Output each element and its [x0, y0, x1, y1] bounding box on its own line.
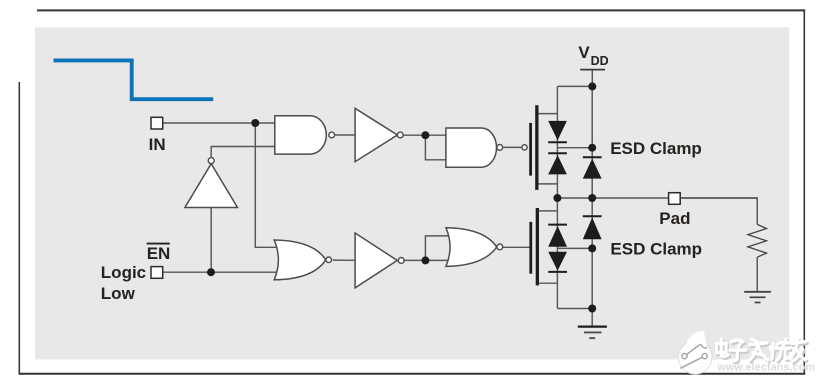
- nor gate U6: [274, 240, 326, 280]
- wire NMOS source/drain vertical: [556, 198, 558, 309]
- node pad rail left junction: [553, 194, 561, 202]
- svg-text:ESD Clamp: ESD Clamp: [610, 239, 702, 258]
- wire PMOS drain lead top: [539, 113, 558, 115]
- inverter U5: [355, 233, 397, 288]
- node ESD clamp top junction: [588, 144, 596, 152]
- nand gate U3: [446, 128, 497, 167]
- wire IN-node down to NOR1 top input: [255, 123, 278, 247]
- frame left border: [18, 82, 20, 375]
- transistor Q1 (PMOS) gate bubble: [522, 145, 527, 150]
- svg-text:www.elecfans.com: www.elecfans.com: [717, 361, 816, 373]
- watermark logo node ring 2: [702, 354, 707, 359]
- inverter U4 (EN buffer, pointing up): [185, 164, 238, 208]
- ground (under resistor): [744, 291, 771, 293]
- wire inverter U5 output to NOR2 bottom input: [404, 259, 450, 261]
- bubble U5 output: [398, 258, 404, 264]
- wire PMOS source/drain vertical: [556, 86, 558, 198]
- node IN junction: [251, 119, 259, 127]
- svg-text:Pad: Pad: [659, 209, 690, 228]
- node ground rail junction: [588, 305, 596, 313]
- diode D3 (ESD clamp to VDD): [583, 156, 602, 158]
- watermark logo trace 2: [680, 356, 704, 368]
- bubble U7 output: [497, 244, 503, 250]
- svg-text:ESD Clamp: ESD Clamp: [610, 139, 702, 158]
- watermark logo circle: [679, 341, 712, 374]
- diode D4 (body diode up): [548, 224, 567, 226]
- wire inverter U2 output to NAND2 top input: [403, 134, 446, 136]
- wire NAND2 output to PMOS gate: [503, 146, 522, 148]
- wire NMOS clamp vertical: [591, 198, 593, 326]
- resistor R1: [748, 224, 767, 257]
- frame top border: [37, 9, 805, 11]
- wire NAND1 output to inverter U2: [335, 134, 356, 136]
- wire feedback loop node to NOR2 top input: [425, 236, 450, 261]
- terminal square Pad: [669, 193, 681, 205]
- watermark chinese characters (stylised strokes): [716, 339, 807, 364]
- wire ground rail bottom: [557, 308, 592, 310]
- node EN junction: [207, 268, 215, 276]
- wire EN-inverter output to NAND1 bottom input: [211, 147, 275, 158]
- wire NMOS clamp middle node: [557, 247, 592, 249]
- watermark logo flame: [686, 331, 707, 349]
- wire NOR1 output to inverter U5: [333, 259, 356, 261]
- bubble U6 output: [326, 257, 332, 263]
- ground (main, under NMOS): [578, 326, 607, 328]
- svg-text:V: V: [578, 43, 590, 62]
- transistor Q1 gate bar: [529, 123, 532, 176]
- svg-text:Logic: Logic: [101, 263, 146, 282]
- watermark logo trace 1: [685, 345, 707, 357]
- node ESD clamp bottom junction: [588, 244, 596, 252]
- wire IN to NAND1 top input: [163, 122, 275, 124]
- wire VDD stem: [591, 70, 593, 87]
- wire VDD clamp vertical: [591, 86, 593, 198]
- wire VDD node to PMOS source branch: [557, 85, 592, 87]
- node VDD junction: [588, 82, 596, 90]
- wire feedback loop node to NAND2 bottom input: [425, 135, 446, 160]
- node pad rail right junction: [588, 194, 596, 202]
- svg-text:IN: IN: [149, 135, 166, 154]
- frame right border: [803, 9, 805, 374]
- diode D1 (body diode down): [548, 121, 567, 140]
- node feedback junction top: [421, 131, 429, 139]
- svg-text:DD: DD: [591, 54, 609, 68]
- diode D5 (body diode down): [548, 252, 567, 271]
- nor gate U7: [446, 228, 497, 267]
- transistor Q1 channel bar: [535, 105, 538, 190]
- diode D2 (body diode up): [548, 152, 567, 154]
- diode D6 (ESD clamp to pad): [583, 215, 602, 217]
- frame bottom border: [19, 373, 805, 375]
- wire PMOS drain lead bottom: [539, 183, 558, 185]
- wire pad rail: [557, 197, 757, 199]
- bubble U2 output: [397, 132, 403, 138]
- svg-text:EN: EN: [147, 244, 171, 263]
- wire EN-inverter input from Logic Low line: [210, 208, 212, 273]
- node feedback junction bottom: [421, 256, 429, 264]
- transistor Q2 channel bar: [536, 208, 539, 285]
- wire NMOS drain lead top: [539, 210, 557, 212]
- panel background: [35, 27, 789, 359]
- transistor Q2 (NMOS) gate bar: [529, 222, 532, 274]
- wire pad to resistor: [680, 198, 757, 224]
- wire NMOS drain lead bottom: [539, 282, 557, 284]
- wire Logic Low to NOR1 bottom input: [163, 271, 279, 273]
- terminal square Logic Low: [151, 267, 163, 279]
- svg-text:Low: Low: [101, 284, 136, 303]
- bubble U3 output: [497, 145, 503, 151]
- watermark logo node ring 1: [682, 354, 687, 359]
- bubble U1 output: [329, 132, 335, 138]
- terminal square IN: [151, 117, 163, 129]
- wire resistor to ground: [756, 257, 758, 291]
- inverter U2: [355, 108, 397, 161]
- wire PMOS clamp middle node: [557, 147, 592, 149]
- falling-edge waveform (blue): [54, 60, 214, 99]
- nand gate U1: [275, 116, 327, 154]
- wire NOR2 output to NMOS gate: [503, 246, 530, 248]
- bubble U4 output: [208, 158, 214, 164]
